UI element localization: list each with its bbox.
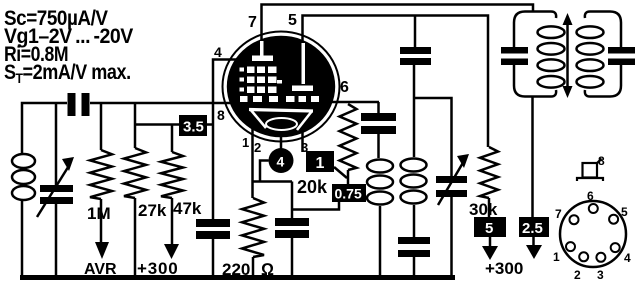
socket pin 1 xyxy=(553,242,575,264)
svg-text:AVR: AVR xyxy=(84,261,117,278)
wire box1 to 20k xyxy=(334,167,347,178)
wire screen node xyxy=(213,60,238,220)
wire pin5 to 30k xyxy=(303,16,489,148)
pin 5 label xyxy=(288,12,297,29)
resistor R1 1M xyxy=(90,103,112,259)
pin 4 label xyxy=(214,44,222,60)
socket pin 5 xyxy=(609,205,628,224)
svg-text:5: 5 xyxy=(288,12,297,29)
capacitor C7 IF1 bottom xyxy=(398,237,430,277)
variable capacitor C8 xyxy=(436,154,469,277)
text AVR xyxy=(84,261,117,278)
tube V1 cathode xyxy=(249,109,313,130)
text 47k xyxy=(173,199,202,218)
resistor R2 27k xyxy=(124,103,146,277)
text 27k xyxy=(138,201,167,220)
capacitor C3 screen bypass xyxy=(196,219,230,277)
capacitor C5 xyxy=(361,102,396,158)
svg-text:1: 1 xyxy=(553,250,560,264)
svg-text:8: 8 xyxy=(217,107,225,123)
socket pin8 label xyxy=(598,154,605,168)
tube V1 anode1 and g-lead (pin7) xyxy=(252,41,273,61)
svg-text:3.5: 3.5 xyxy=(183,119,204,136)
svg-text:+300: +300 xyxy=(137,259,179,278)
wire pin3 lead xyxy=(301,131,304,152)
arrow under box 2.5 xyxy=(526,237,542,259)
meter box 2.5 xyxy=(519,217,549,237)
inductor L2 IF1 primary xyxy=(367,160,393,278)
text 20k xyxy=(297,177,328,197)
resistor R4 220 ohm xyxy=(242,198,264,277)
svg-text:5: 5 xyxy=(621,205,628,219)
text 220 ohm xyxy=(222,260,274,279)
wire pin6 xyxy=(330,101,379,104)
pin 8 label xyxy=(217,107,225,123)
inductor L3 IF1 secondary xyxy=(401,65,427,237)
socket pin 2 xyxy=(574,252,588,282)
svg-text:30k: 30k xyxy=(469,200,498,219)
tube V1 bottom grid dashed row xyxy=(240,96,319,102)
socket pin 7 xyxy=(555,207,579,224)
svg-text:2.5: 2.5 xyxy=(522,220,543,237)
svg-text:2: 2 xyxy=(574,268,581,282)
svg-text:6: 6 xyxy=(587,189,594,203)
wire bottom rail xyxy=(20,275,455,280)
svg-text:7: 7 xyxy=(248,14,257,31)
resistor R5 20k xyxy=(340,104,357,184)
svg-text:ST=2mA/V max.: ST=2mA/V max. xyxy=(4,61,131,86)
pin 6 label xyxy=(340,79,349,96)
svg-text:20k: 20k xyxy=(297,177,328,197)
svg-text:3: 3 xyxy=(597,268,604,282)
svg-text:1: 1 xyxy=(242,135,249,150)
svg-text:27k: 27k xyxy=(138,201,167,220)
pin 3 label xyxy=(301,140,308,155)
svg-text:4: 4 xyxy=(277,154,285,170)
text 30k xyxy=(469,200,498,219)
wire heater branch xyxy=(253,161,293,219)
tube V1 envelope xyxy=(223,32,340,142)
svg-text:220: 220 xyxy=(222,260,250,279)
text Ri=0.8M xyxy=(4,43,68,67)
arrow +300 under box5 xyxy=(482,237,498,260)
tube V1 anode2 and lead (pin5) xyxy=(277,43,313,91)
meter box 3.5 xyxy=(135,115,214,136)
svg-text:+300: +300 xyxy=(485,259,523,278)
svg-text:8: 8 xyxy=(598,154,605,168)
text Vg1=-2V...-20V xyxy=(4,25,134,48)
text ST=2mA/V max xyxy=(4,61,131,86)
svg-text:7: 7 xyxy=(555,207,562,221)
meter box 5 xyxy=(474,217,506,237)
meter box 0.75 xyxy=(332,184,366,202)
socket pin 4 xyxy=(611,243,631,265)
svg-text:1M: 1M xyxy=(87,204,111,223)
svg-text:5: 5 xyxy=(485,220,493,237)
text Sc=750uA/V xyxy=(4,7,109,30)
socket pin 6 xyxy=(587,189,598,213)
wire 0.75 to cathode cap xyxy=(292,202,339,210)
capacitor C1 grid coupling xyxy=(68,93,90,116)
svg-text:47k: 47k xyxy=(173,199,202,218)
wire pin1 lead xyxy=(251,128,254,198)
wire left tank top/left xyxy=(22,103,233,277)
svg-text:0.75: 0.75 xyxy=(335,186,362,202)
capacitor C9 primary xyxy=(501,47,528,65)
variable capacitor C2 tuning xyxy=(37,103,74,277)
coupling arrow xyxy=(563,13,573,98)
svg-text:Ω: Ω xyxy=(261,260,274,279)
resistor R6 30k xyxy=(480,147,498,217)
output transformer primary tank xyxy=(514,12,565,97)
wire IF1 branch xyxy=(414,98,452,176)
text +300 right xyxy=(485,259,523,278)
socket base circle xyxy=(560,201,626,267)
pin 2 label xyxy=(254,140,261,155)
socket pin 3 xyxy=(596,253,605,282)
svg-text:2: 2 xyxy=(254,140,261,155)
pin 1 label xyxy=(242,135,249,150)
wire primary bottom to 2.5 xyxy=(531,96,534,217)
svg-text:1: 1 xyxy=(316,155,325,172)
text 1M xyxy=(87,204,111,223)
heater pin marker circle 4 xyxy=(269,135,294,173)
svg-text:6: 6 xyxy=(340,79,349,96)
capacitor C10 secondary xyxy=(608,47,635,65)
socket top cap symbol xyxy=(577,159,603,182)
text +300 left xyxy=(137,259,179,278)
svg-text:4: 4 xyxy=(214,44,222,60)
capacitor C6 top xyxy=(400,16,431,66)
output transformer secondary tank xyxy=(577,12,622,97)
meter box 1 xyxy=(306,151,334,172)
pin 7 label xyxy=(248,14,257,31)
resistor R3 47k xyxy=(161,125,183,260)
inductor L1 antenna coil xyxy=(12,154,35,200)
svg-text:4: 4 xyxy=(624,251,631,265)
capacitor C4 cathode bypass xyxy=(275,218,309,277)
wire pin7 to output transformer xyxy=(262,5,534,42)
tube V1 grid array xyxy=(240,67,277,94)
